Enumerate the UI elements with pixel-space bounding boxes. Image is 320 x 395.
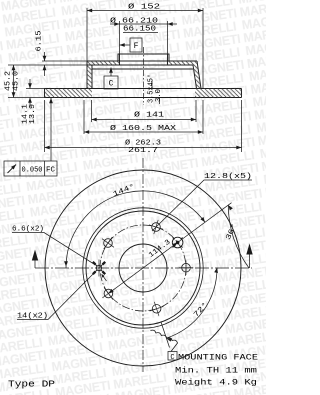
svg-text:6.6(x2): 6.6(x2) — [12, 226, 44, 234]
svg-text:45.2: 45.2 — [5, 71, 13, 91]
svg-text:Type DP: Type DP — [8, 380, 55, 390]
svg-text:C: C — [170, 354, 174, 362]
svg-text:12.8(x5): 12.8(x5) — [204, 173, 252, 181]
svg-text:Ø 152: Ø 152 — [128, 3, 160, 12]
svg-text:Ø 141: Ø 141 — [134, 111, 164, 120]
svg-text:3.0: 3.0 — [155, 89, 163, 102]
svg-text:66.150: 66.150 — [123, 26, 156, 34]
svg-text:Min. TH 11 mm: Min. TH 11 mm — [175, 367, 257, 376]
svg-text:Ø 66.210: Ø 66.210 — [110, 17, 158, 26]
svg-text:Ø 160.5 MAX: Ø 160.5 MAX — [110, 124, 177, 133]
svg-text:C: C — [109, 80, 114, 89]
svg-text:13.9: 13.9 — [29, 104, 37, 124]
svg-text:0.050: 0.050 — [22, 167, 43, 175]
svg-text:45.0: 45.0 — [13, 71, 21, 91]
svg-text:MOUNTING FACE: MOUNTING FACE — [178, 353, 258, 362]
svg-text:F: F — [134, 42, 139, 51]
svg-text:261.7: 261.7 — [128, 147, 158, 155]
svg-text:6.15: 6.15 — [36, 31, 44, 52]
svg-text:14(x2): 14(x2) — [17, 313, 48, 321]
svg-text:Weight 4.9 Kg: Weight 4.9 Kg — [175, 379, 257, 388]
svg-text:FC: FC — [46, 167, 55, 175]
